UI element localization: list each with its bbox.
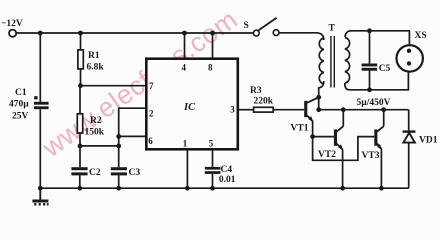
transformer core [330, 36, 332, 88]
wire bottom bus (ground rail) [40, 187, 408, 189]
svg-text:S: S [244, 21, 249, 31]
wire secondary top to XS [345, 31, 409, 46]
node secondary top / C5 [367, 28, 372, 33]
svg-text:7: 7 [149, 81, 154, 91]
socket XS [397, 45, 423, 71]
wire VT2 emitter down [342, 150, 344, 189]
node rail corner [316, 107, 321, 112]
svg-text:1: 1 [183, 139, 188, 149]
wire transformer primary bottom lead [319, 81, 324, 110]
terminal -12V [9, 30, 16, 37]
svg-text:C5: C5 [379, 64, 391, 74]
wire R1 bottom lead [80, 69, 82, 86]
capacitor C1 [34, 96, 49, 109]
svg-text:220k: 220k [254, 97, 274, 107]
wire R2 leads [79, 86, 81, 114]
node bottom bus ground [38, 186, 43, 191]
capacitor C4 [205, 167, 221, 174]
svg-text:VT1: VT1 [291, 124, 309, 134]
resistor R2 [77, 114, 82, 133]
svg-text:R2: R2 [90, 116, 102, 126]
wire pin 7 [81, 85, 147, 87]
node top bus pin8 [210, 31, 215, 36]
svg-text:150k: 150k [85, 128, 105, 138]
node bus C2 [77, 186, 82, 191]
svg-text:XS: XS [415, 31, 427, 41]
node R1/R2/pin7 [78, 83, 83, 88]
node bus pin1 [185, 186, 190, 191]
op-amp U1 (IC box) [146, 59, 238, 150]
node rail VT3 collector [381, 107, 386, 112]
node bus VT3 emitter [379, 186, 384, 191]
capacitor C5 [362, 64, 378, 71]
node bus VT2 emitter [340, 186, 345, 191]
wire C3 column [118, 136, 120, 167]
resistor R3 [254, 107, 274, 112]
wire pin 4 [184, 33, 186, 59]
svg-text:C2: C2 [89, 168, 101, 178]
node top bus pin4 [182, 31, 187, 36]
svg-text:IC: IC [183, 102, 196, 113]
resistor R1 [78, 50, 83, 69]
diode VD1 [403, 130, 416, 142]
svg-text:4: 4 [182, 63, 187, 73]
wire VT3 collector [383, 110, 385, 127]
node pin6 tee [116, 134, 121, 139]
transformer T secondary winding [345, 38, 350, 84]
wire VT3 emitter down [380, 149, 382, 188]
svg-text:3: 3 [230, 104, 235, 114]
wire pin 3 to R3 [239, 109, 254, 111]
wire top bus [16, 32, 253, 34]
wire VT1 emitter to VT2 base [313, 121, 334, 137]
node R2 bottom [78, 144, 83, 149]
transistor VT2 [334, 126, 343, 150]
transformer T primary winding [319, 38, 324, 84]
wire C5 leads [369, 31, 371, 64]
svg-text:−12V: −12V [1, 19, 23, 29]
svg-text:VD1: VD1 [419, 136, 438, 146]
node secondary bottom / C5 [367, 87, 372, 92]
wire C1 branch [39, 33, 41, 102]
transistor VT3 [374, 126, 383, 150]
node VT1e/VT2b [310, 134, 315, 139]
ground [32, 188, 48, 204]
wire collector rail [319, 109, 409, 111]
wire switch to transformer primary top [279, 33, 324, 40]
wire pin 2 [119, 108, 146, 136]
svg-text:R1: R1 [88, 51, 100, 61]
svg-text:T: T [329, 24, 336, 34]
svg-text:R3: R3 [250, 86, 262, 96]
svg-text:6.8k: 6.8k [87, 63, 105, 73]
wire R3 to VT1 base [273, 109, 304, 111]
transistor VT1 [304, 97, 319, 122]
svg-text:0.01: 0.01 [219, 175, 236, 185]
svg-text:5µ/450V: 5µ/450V [357, 98, 391, 108]
svg-text:VT2: VT2 [318, 150, 336, 160]
node bus C4 [210, 186, 215, 191]
svg-text:C4: C4 [221, 165, 233, 175]
wire pin 8 [212, 33, 214, 59]
svg-text:2: 2 [149, 109, 154, 119]
capacitor C2 [71, 167, 87, 175]
node top bus C1 [38, 31, 43, 36]
wire pin 6 [119, 135, 146, 137]
svg-text:470µ: 470µ [9, 100, 29, 110]
wire pin 5 / C4 leads [212, 151, 214, 167]
wire R2 bottom to C3 column [80, 145, 119, 147]
wire VT3 base detour [313, 137, 375, 161]
node top bus R1 [78, 31, 83, 36]
svg-text:5: 5 [209, 139, 214, 149]
wire pin 1 [186, 151, 188, 189]
capacitor C3 [111, 167, 127, 175]
node C3 column tee [116, 144, 121, 149]
svg-text:C3: C3 [129, 168, 141, 178]
svg-text:6: 6 [148, 136, 153, 146]
node VT1 collector / primary [316, 95, 321, 100]
wire VD1 branch [408, 110, 410, 131]
wire R1 top lead [80, 33, 82, 50]
svg-text:C1: C1 [15, 88, 27, 98]
wire VT2 collector [342, 110, 344, 127]
wire secondary bottom to XS [345, 72, 409, 90]
svg-text:8: 8 [208, 63, 213, 73]
switch S [253, 18, 279, 36]
svg-text:25V: 25V [12, 112, 29, 122]
wire C2 leads [79, 146, 81, 167]
svg-text:VT3: VT3 [362, 151, 380, 161]
node rail VT2 collector [341, 107, 346, 112]
node bus C3 [116, 186, 121, 191]
